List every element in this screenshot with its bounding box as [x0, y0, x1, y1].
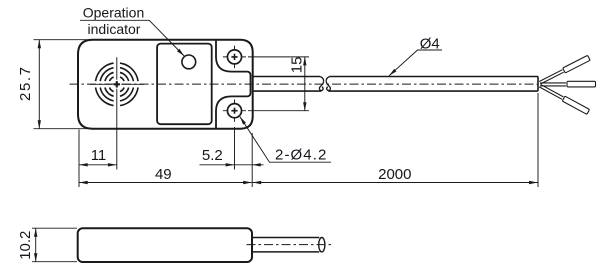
mounting hole 2 (lower) [223, 100, 309, 122]
cable break curves [319, 77, 330, 91]
side view centerline [247, 244, 334, 246]
wire: horizontal centerline (dash-dot) of top view [70, 83, 539, 85]
svg-text:5.2: 5.2 [202, 147, 223, 164]
leader for cable diameter [389, 50, 442, 76]
dimension 11 [79, 112, 117, 188]
flange/body boundary with cable gland neck [216, 41, 251, 128]
side view cable [252, 238, 319, 252]
lower lead [539, 83, 590, 114]
svg-text:25.7: 25.7 [17, 65, 34, 101]
cable (top view) with break symbol [253, 77, 538, 92]
operation indicator LED circle [182, 55, 196, 69]
dimension 25.7 (left height) [34, 40, 91, 129]
side view body (bottom) [78, 228, 252, 262]
svg-text:49: 49 [155, 166, 172, 183]
dimension 15 (hole spacing) [304, 57, 306, 111]
upper lead [539, 55, 591, 85]
mounting hole 1 (upper) [223, 46, 309, 68]
raised lid (inner rounded rectangle) [157, 44, 212, 125]
dimension 10.2 (side view height) [32, 228, 77, 262]
svg-text:10.2: 10.2 [17, 231, 34, 260]
svg-text:Operation: Operation [83, 5, 144, 21]
svg-text:11: 11 [91, 147, 107, 164]
middle lead [540, 81, 596, 87]
dimension 2000 [253, 93, 538, 187]
svg-text:indicator: indicator [88, 21, 141, 37]
leader for mounting holes [240, 117, 331, 163]
sensing face crosshair [90, 57, 145, 111]
svg-text:15: 15 [288, 57, 305, 74]
svg-text:2000: 2000 [378, 166, 411, 183]
leader for operation indicator [80, 20, 184, 56]
main sensor body with mounting flange (top view outline) [78, 40, 253, 129]
side view cable end ellipse [319, 238, 325, 252]
dimension 5.2 [200, 127, 264, 170]
sensing face ring pattern [96, 63, 139, 106]
svg-text:2-Ø4.2: 2-Ø4.2 [275, 146, 327, 163]
dimension 49 [79, 133, 252, 187]
